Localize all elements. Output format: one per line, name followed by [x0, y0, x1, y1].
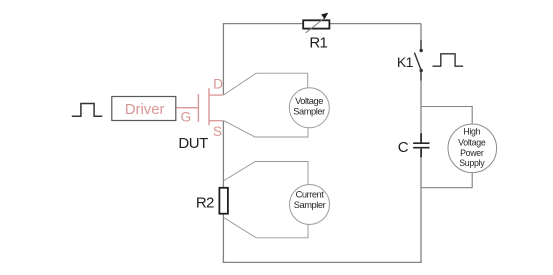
wire: voltage sampler fork top	[223, 73, 307, 95]
wire: top horizontal rail	[223, 23, 421, 25]
current sampler circle	[290, 185, 330, 225]
svg-text:Sampler: Sampler	[293, 106, 325, 116]
wire: bottom horizontal rail	[223, 261, 422, 263]
wire: right vertical rail (capacitor to bottom rail)	[420, 148, 422, 262]
driver box	[112, 97, 176, 121]
wire: voltage sampler fork bottom	[223, 120, 308, 137]
wire: left vertical rail lower (DUT source to bottom rail)	[222, 121, 224, 263]
transistor DUT drain stub	[209, 94, 223, 96]
label Current Sampler	[294, 190, 326, 211]
switch K1 dark stub bottom	[420, 71, 422, 81]
svg-text:D: D	[213, 76, 223, 91]
resistor R2 body	[219, 188, 228, 214]
svg-text:Supply: Supply	[459, 158, 485, 168]
svg-text:K1: K1	[397, 54, 414, 70]
capacitor C stub top	[420, 133, 422, 142]
svg-text:R2: R2	[196, 195, 214, 212]
switch K1 dark stub top	[420, 40, 422, 51]
capacitor C stub bottom	[420, 149, 422, 157]
switch K1 bottom dot	[420, 69, 423, 72]
pulse symbol at driver input	[72, 104, 103, 117]
svg-text:S: S	[213, 124, 222, 139]
transistor DUT channel bar	[208, 88, 210, 125]
svg-text:G: G	[181, 110, 192, 125]
wire: current sampler fork top	[223, 162, 308, 185]
transistor DUT gate bar	[197, 94, 199, 122]
resistor R1 (variable) body	[303, 20, 329, 28]
svg-text:High: High	[463, 127, 480, 137]
label High Voltage Power Supply	[458, 127, 486, 168]
voltage sampler circle	[289, 88, 329, 128]
resistor R1 wiper diagonal	[306, 18, 325, 33]
wire: left vertical rail upper (top rail to DUT drain)	[222, 24, 224, 96]
svg-text:Current: Current	[296, 190, 325, 200]
svg-text:Sampler: Sampler	[294, 200, 326, 210]
svg-text:Power: Power	[460, 148, 484, 158]
wire: right vertical rail (K1 to capacitor)	[420, 71, 422, 143]
wire: branch top to power supply	[421, 107, 472, 125]
switch K1 top dot	[420, 49, 423, 52]
svg-text:R1: R1	[309, 35, 327, 52]
wire: branch bottom from power supply	[421, 172, 472, 187]
svg-text:Driver: Driver	[125, 101, 165, 118]
svg-text:C: C	[398, 139, 409, 156]
wire: current sampler fork bottom	[223, 217, 308, 237]
transistor DUT gate lead	[176, 107, 198, 109]
transistor DUT source stub	[209, 120, 223, 122]
svg-text:Voltage: Voltage	[458, 137, 486, 147]
resistor R1 arrowhead	[321, 13, 328, 20]
pulse symbol near K1	[433, 54, 464, 66]
svg-text:DUT: DUT	[178, 135, 208, 152]
wire: right vertical rail (top rail to K1)	[420, 24, 422, 51]
high voltage power supply circle	[448, 124, 497, 173]
svg-text:Voltage: Voltage	[295, 96, 323, 106]
switch K1 blade	[414, 53, 421, 70]
capacitor C plate bottom	[413, 147, 429, 149]
label Voltage Sampler	[293, 96, 325, 116]
capacitor C plate top	[413, 142, 429, 144]
